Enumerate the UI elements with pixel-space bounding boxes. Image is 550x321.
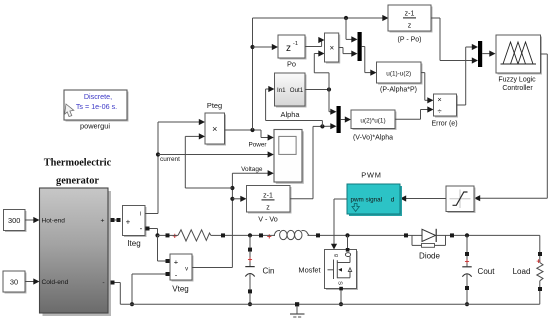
svg-text:generator: generator [56,176,99,187]
wire Alpha to mux2 [329,90,337,115]
svg-text:+: + [536,257,541,266]
(P - Po) label [398,37,422,44]
node P junction [250,128,254,132]
svg-text:300: 300 [8,216,20,225]
svg-text:z: z [408,22,412,29]
V - Vo label [258,215,278,224]
Mosfet source port [339,287,343,291]
svg-text:Vteg: Vteg [172,285,188,294]
inductor L polarity mark [267,232,272,241]
node P to Po junction [250,45,254,49]
wire fuzzy out to saturation [474,54,547,201]
svg-text:Controller: Controller [502,85,533,92]
(P-Alpha*P) label [380,86,417,93]
Mosfet block [325,250,359,291]
capacitor Cout [462,235,471,304]
Cout polarity mark [465,257,470,266]
svg-text:Voltage: Voltage [241,166,263,173]
Thermoelectric generator title [44,158,112,187]
wire P down to mux1 [346,18,358,43]
svg-text:+: + [174,257,179,266]
Mosfet drain port [346,248,350,252]
svg-text:-: - [140,224,143,233]
wire Vteg v output up [192,170,274,267]
wire Mosfet source to bus [340,290,342,304]
Alpha label [281,110,301,119]
wire L to diode (top bus) [320,234,404,236]
node label Power [248,141,267,148]
svg-text:Hot-end: Hot-end [42,218,66,225]
svg-text:z-1: z-1 [405,10,415,17]
voltage measurement Vteg feed wire [158,235,166,261]
Fcn block u(1)-u(2) [377,62,423,85]
svg-text:current: current [160,156,180,163]
constant 300 [4,210,27,233]
wire P-Po out to mux3 [431,18,478,64]
svg-text:Po: Po [287,60,296,69]
svg-text:v: v [185,267,188,273]
inductor L [263,230,316,239]
product Alpha*P [325,33,341,64]
node voltage branch 2 [230,197,234,201]
capacitor Cin [245,235,254,304]
Cout label [478,267,496,276]
svg-text:In1: In1 [277,87,286,94]
node Mosfet source on bus [339,302,343,306]
inductor L terminal left [259,233,263,237]
node Cin bottom on bus [248,302,252,306]
svg-text:d: d [391,196,395,203]
svg-text:Discrete,: Discrete, [84,92,112,101]
Thermoelectric generator block [40,188,112,316]
wire bottom bus [120,303,540,305]
svg-text:z: z [286,43,291,54]
unit delay Po [278,35,307,60]
(V-Vo)*Alpha label [353,134,393,141]
svg-text:(P-Alpha*P): (P-Alpha*P) [380,86,417,93]
node Cout top junction [465,233,469,237]
wire Error out to mux3 [457,44,479,105]
svg-text:(P - Po): (P - Po) [398,37,422,44]
voltage measurement Vteg [170,254,194,282]
svg-text:Cout: Cout [478,267,496,276]
wire voltage to Pteg [185,133,232,188]
svg-text:u(2)*u(1): u(2)*u(1) [360,117,385,124]
resistor R polarity mark [172,232,177,241]
svg-text:×: × [329,44,334,53]
Iteg minus port [146,227,150,231]
Fuzzy Logic Controller label [498,77,536,93]
svg-text:powergui: powergui [80,122,110,131]
node Vteg minus on bus [130,302,134,306]
svg-text:Alpha: Alpha [281,110,301,119]
wire node to resistor [158,234,166,236]
svg-text:-: - [102,280,104,287]
svg-text:i: i [140,211,141,217]
svg-text:+: + [465,257,470,266]
svg-text:+: + [267,232,272,241]
wire Po to product [305,37,325,47]
node Iteg minus junction [155,233,159,237]
Vteg minus port [166,272,170,276]
svg-text:Fuzzy Logic: Fuzzy Logic [498,77,536,84]
PWM subsystem [347,184,402,216]
wire saturation to PWM [400,195,446,201]
svg-text:z-1: z-1 [263,192,273,199]
discrete block V-Vo [247,186,292,214]
Vteg plus port [166,259,170,263]
svg-text:30: 30 [10,277,18,286]
resistor R [170,230,222,241]
svg-text:u(1)-u(2): u(1)-u(2) [386,70,411,77]
svg-text:+: + [248,255,253,264]
wire mux3 to fuzzy [482,51,495,57]
wire TEG cold to bottom bus [115,283,121,305]
diode Diode [408,229,450,248]
wire diode to load corner [454,235,540,252]
node label current [160,156,180,163]
product Pteg [205,113,226,146]
Cin polarity mark [248,255,253,264]
wire Iteg minus to node [150,229,158,236]
Iteg label [127,239,140,248]
svg-text:×: × [437,95,441,104]
wire mux2 to u(2)*u(1) [341,116,351,122]
node current junction [156,152,160,156]
svg-text:Diode: Diode [419,252,440,261]
svg-text:PWM: PWM [361,171,381,180]
Cin label [262,267,274,276]
divide block Error [434,94,459,118]
constant 30 [3,271,27,294]
svg-text:pwm signal: pwm signal [351,196,383,203]
wire Alpha to product [314,50,329,89]
Error (e) label [431,121,457,128]
wire R to inductor [225,234,259,236]
wire u(2)*u(1) to Error [395,106,434,119]
wire u(1)-u(2) to Error [421,73,434,104]
node voltage branch 1 [230,186,234,190]
wire P up to top [253,15,389,130]
mux M2 [337,106,341,133]
svg-text:z: z [266,204,270,211]
svg-text:g: g [333,254,339,257]
discrete block P-Po [388,5,433,33]
wire V-Vo to Alpha input [266,86,323,127]
svg-text:S: S [337,281,343,285]
wire current to scope [158,151,274,157]
svg-text:Mosfet: Mosfet [298,265,320,274]
ground terminal [295,302,299,306]
svg-text:+: + [172,232,177,241]
Fuzzy Logic Controller [496,35,542,75]
PWM label [361,171,381,180]
powergui label [80,122,110,131]
wire Pteg out [225,130,274,141]
svg-text:Power: Power [248,141,267,148]
svg-text:Cin: Cin [262,267,274,276]
node Alpha junction [327,87,331,91]
Pteg label [207,101,222,110]
node Cin top junction [248,233,252,237]
Load polarity mark [536,257,541,266]
svg-text:-1: -1 [293,41,298,47]
svg-text:Pteg: Pteg [207,101,222,110]
wire Alpha out [305,89,329,91]
wire voltage to V-Vo block [232,196,246,202]
svg-text:+: + [101,218,105,225]
powergui block [64,90,129,122]
Diode label [419,252,440,261]
inductor L terminal right [316,233,320,237]
svg-text:(V-Vo)*Alpha: (V-Vo)*Alpha [353,134,393,141]
scope block [274,130,304,184]
wire PWM out to Mosfet gate [331,199,347,250]
Vteg label [172,285,188,294]
node P to mux junction [344,16,348,20]
svg-text:Out1: Out1 [290,87,304,94]
node Cout bottom on bus [465,302,469,306]
svg-text:×: × [212,124,217,134]
node V-Vo branch [320,124,324,128]
svg-text:V - Vo: V - Vo [258,215,278,224]
svg-text:Error (e): Error (e) [431,121,457,128]
svg-text:Thermoelectric: Thermoelectric [44,158,112,169]
ground [290,306,305,317]
resistor R terminal right [221,233,225,237]
Load label [513,267,531,276]
wire drain junction to Mosfet [347,235,349,249]
Fcn block u(2)*u(1) [351,110,397,130]
wire mux1 to u(1)-u(2) [362,47,377,76]
current measurement Iteg [123,206,147,238]
resistor R terminal left [166,233,170,237]
svg-text:Load: Load [513,267,531,276]
saturation block [446,186,476,213]
wire Vteg minus to ground bus [132,274,166,304]
wire P to Po [253,44,279,50]
mux M3 [478,41,482,67]
wire product to mux1 [339,48,358,57]
subsystem Alpha [275,73,307,108]
svg-text:+: + [126,218,131,227]
diode terminal left [404,233,408,237]
wire Iteg i out up (current) [145,119,205,214]
mux M1 [358,32,362,61]
TEG hot port [111,218,115,222]
svg-text:Iteg: Iteg [127,239,140,248]
TEG cold port [111,281,115,285]
svg-text:Ts = 1e-06 s.: Ts = 1e-06 s. [76,102,117,111]
wire 30 to Cold-end [25,278,40,284]
Po label [287,60,296,69]
wire V-Vo out to mux2 [290,123,337,199]
wire 300 to Hot-end [25,217,40,223]
wire TEG+ to Iteg [115,218,121,222]
diode terminal right [450,233,454,237]
resistor Load [537,252,543,304]
node Mosfet drain junction [345,233,349,237]
svg-text:Cold-end: Cold-end [42,279,69,286]
node label Voltage [241,166,263,173]
Mosfet label [298,265,320,274]
svg-text:÷: ÷ [438,106,442,115]
